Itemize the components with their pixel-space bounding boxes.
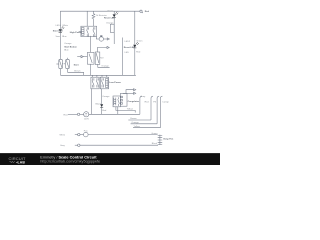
svg-text:Orange: Orange bbox=[101, 65, 109, 68]
svg-text:LED2: LED2 bbox=[125, 41, 131, 43]
svg-text:Start LED: Start LED bbox=[53, 29, 63, 32]
svg-text:Low Power: Low Power bbox=[109, 82, 121, 84]
svg-text:Brown: Brown bbox=[74, 70, 81, 73]
svg-text:Red: Red bbox=[145, 11, 150, 13]
svg-text:Orange: Orange bbox=[64, 42, 72, 45]
svg-text:LED1: LED1 bbox=[56, 25, 62, 27]
svg-text:NO: NO bbox=[100, 57, 104, 59]
svg-text:LED: LED bbox=[125, 52, 130, 54]
svg-text:120V: 120V bbox=[84, 119, 90, 121]
svg-text:High Power: High Power bbox=[70, 32, 82, 34]
svg-text:Start: Start bbox=[74, 63, 79, 66]
svg-text:Blue: Blue bbox=[64, 50, 69, 52]
svg-text:Black: Black bbox=[96, 104, 102, 106]
svg-text:White: White bbox=[62, 24, 68, 27]
svg-text:5mm: 5mm bbox=[56, 36, 61, 38]
svg-text:Green: Green bbox=[151, 132, 158, 135]
svg-text:Reset LED: Reset LED bbox=[104, 17, 115, 20]
svg-text:Orange: Orange bbox=[131, 121, 139, 124]
svg-text:Brown: Brown bbox=[130, 117, 137, 120]
svg-text:Orange: Orange bbox=[102, 95, 110, 98]
svg-text:Yellow: Yellow bbox=[134, 126, 141, 128]
svg-text:Reset LED: Reset LED bbox=[124, 46, 135, 49]
svg-text:Green: Green bbox=[107, 10, 114, 13]
svg-text:Yellow: Yellow bbox=[127, 109, 134, 111]
svg-text:Orange: Orange bbox=[106, 22, 114, 25]
svg-text:1k Resistor: 1k Resistor bbox=[96, 14, 107, 17]
svg-text:Compr: Compr bbox=[162, 101, 169, 104]
svg-text:White: White bbox=[60, 134, 66, 137]
svg-text:Green: Green bbox=[136, 40, 143, 43]
svg-text:Black: Black bbox=[152, 143, 158, 145]
svg-text:Blue: Blue bbox=[62, 36, 67, 38]
svg-text:▪LAB: ▪LAB bbox=[16, 161, 25, 165]
svg-text:Congelator: Congelator bbox=[128, 100, 140, 103]
svg-text:http://circuitlab.com/cmky5qgq: http://circuitlab.com/cmky5qgqqwfe bbox=[40, 160, 100, 164]
svg-text:Start Button: Start Button bbox=[64, 45, 77, 48]
svg-text:Evap Fan: Evap Fan bbox=[164, 139, 174, 141]
